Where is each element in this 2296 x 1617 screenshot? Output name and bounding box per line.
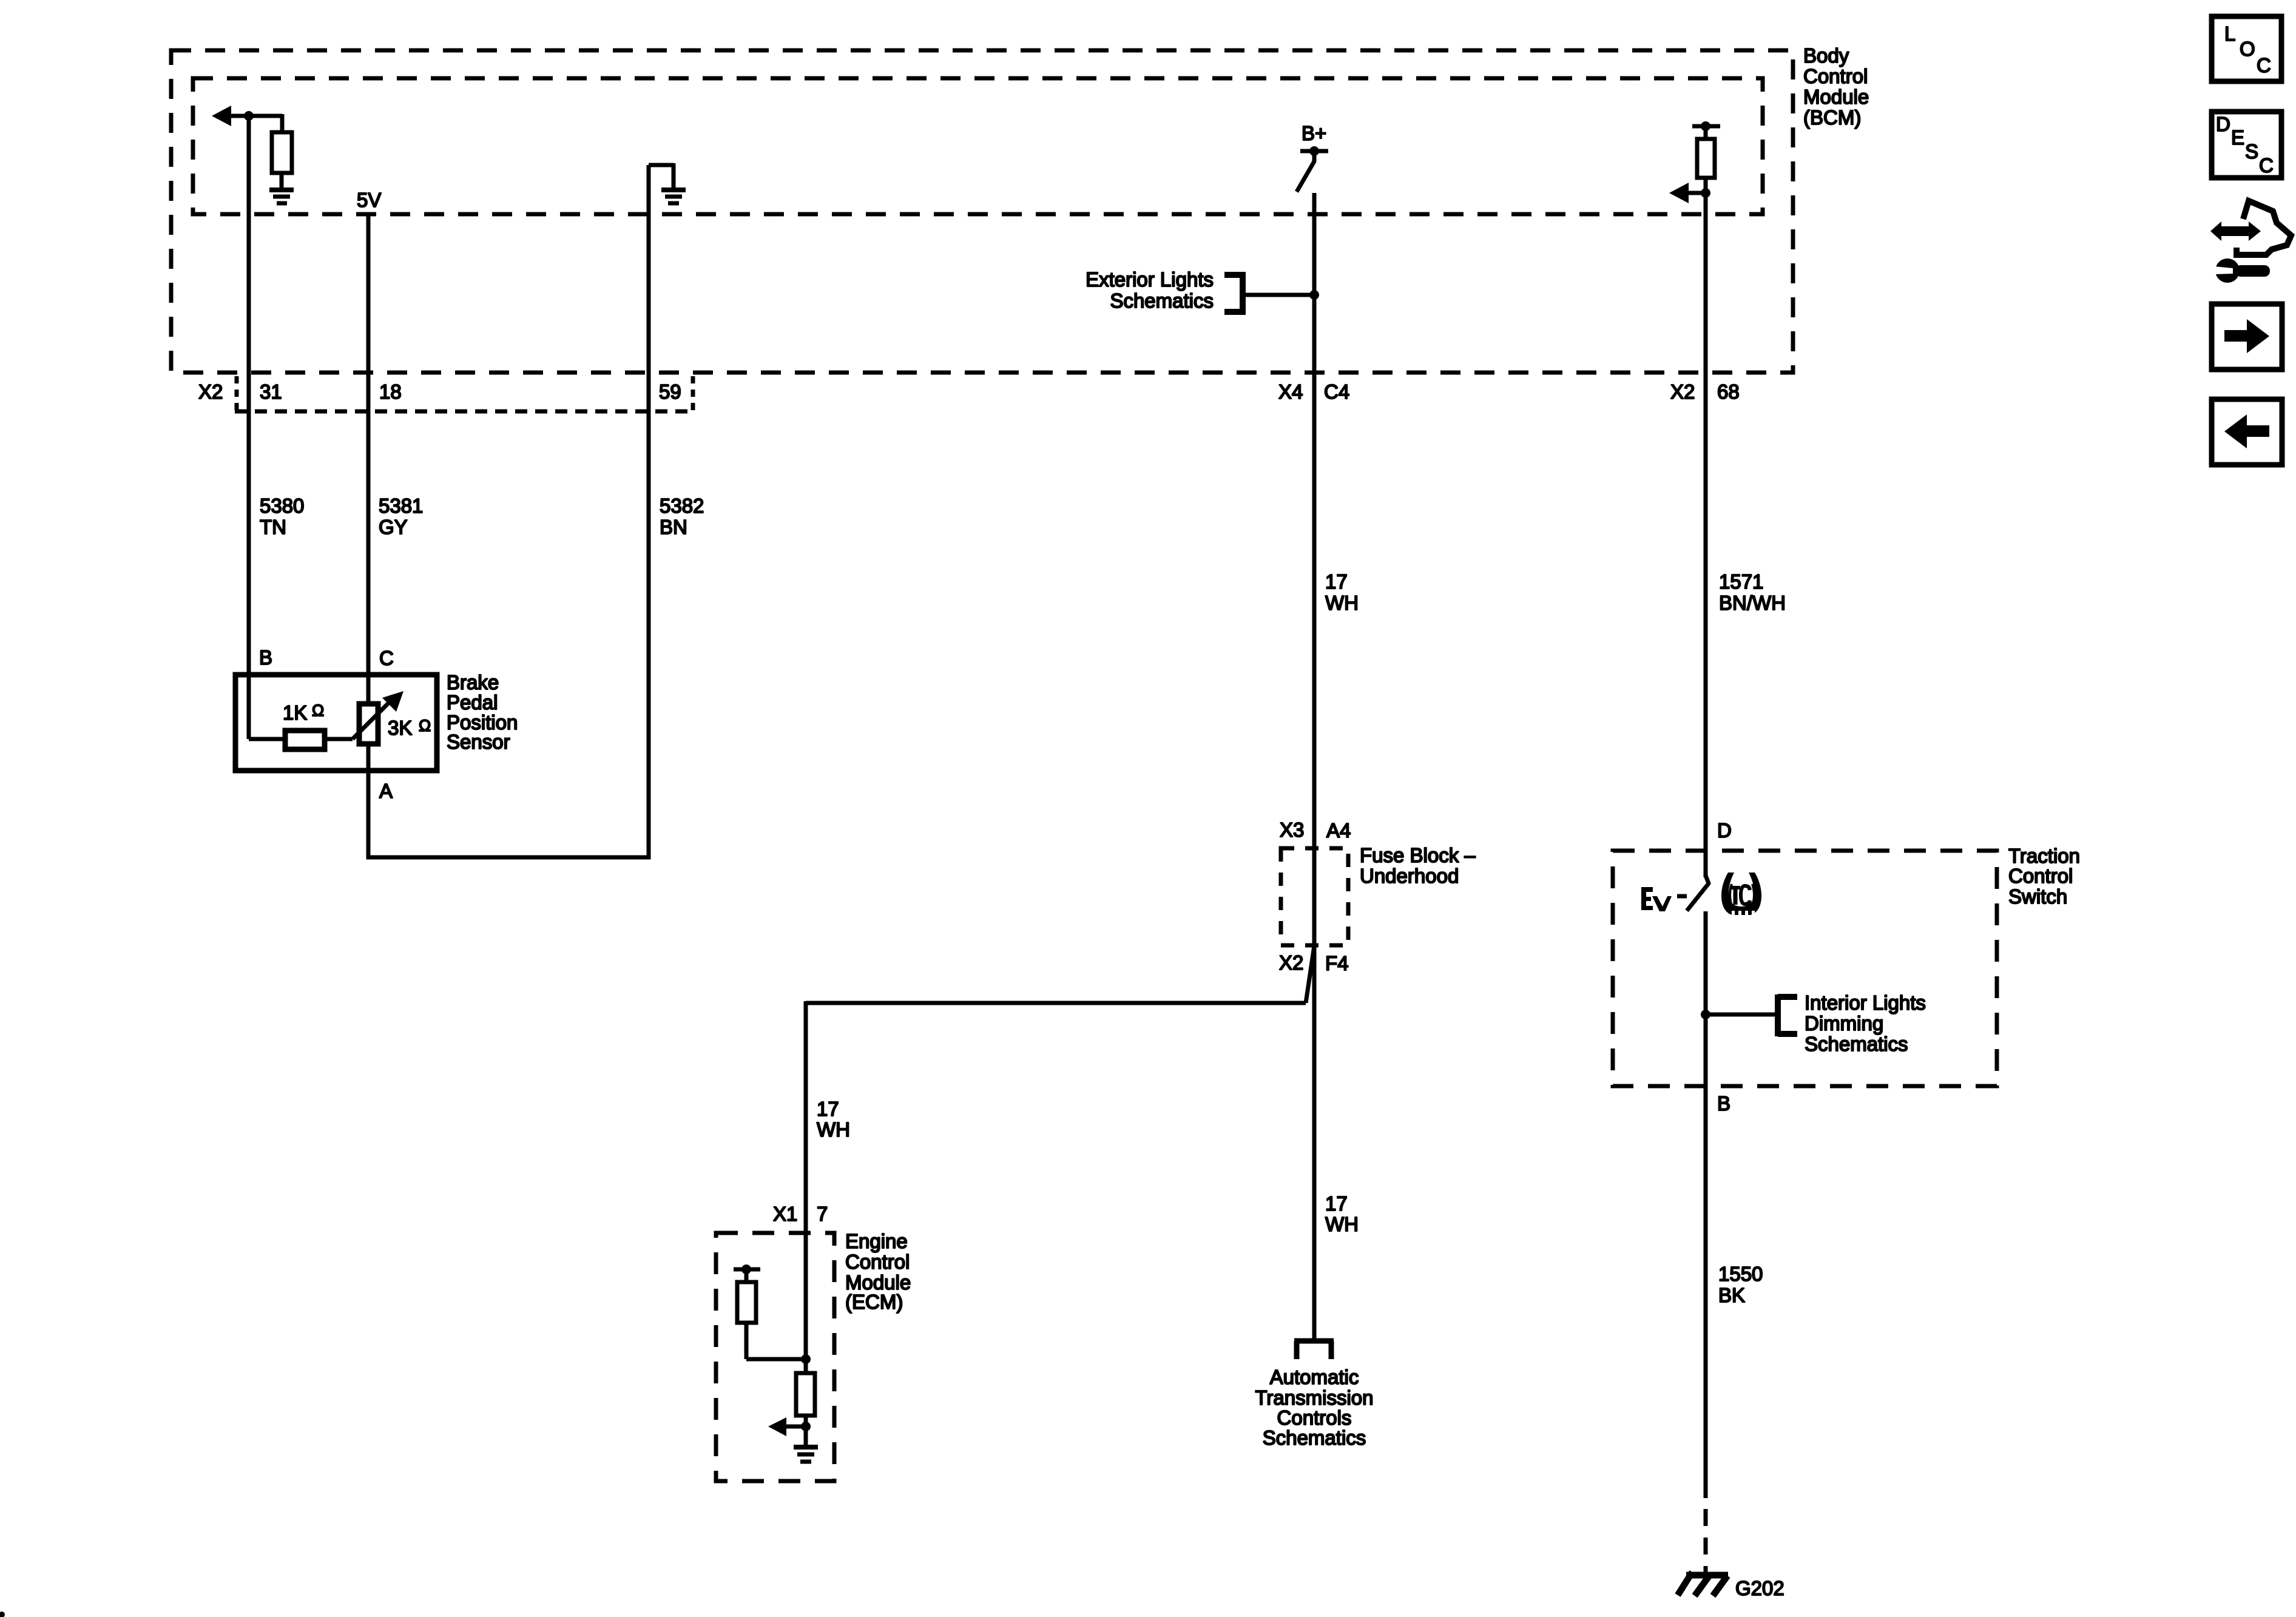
- svg-text:B: B: [1717, 1092, 1730, 1115]
- svg-text:31: 31: [260, 380, 282, 403]
- resistor (ECM pull-up): [737, 1282, 756, 1323]
- Fuse Block - Underhood box (dashed): [1281, 848, 1348, 945]
- signal arrow on node 68: [1669, 183, 1706, 203]
- wire ECM pull-up to node: [746, 1323, 806, 1359]
- svg-text:WH: WH: [817, 1118, 850, 1141]
- svg-text:Ω: Ω: [312, 701, 324, 720]
- svg-text:BN: BN: [660, 516, 687, 538]
- svg-text:Control: Control: [1803, 65, 1868, 87]
- wire label 1571 BN/WH: [1719, 570, 1786, 614]
- svg-text:3K: 3K: [388, 717, 412, 739]
- junction node 31: [244, 111, 254, 121]
- BCM outer module box (dashed): [171, 50, 1793, 373]
- label: Brake Pedal Position Sensor: [447, 671, 518, 753]
- svg-text:Schematics: Schematics: [1110, 289, 1214, 312]
- B+ feed bar and node: [1300, 146, 1328, 156]
- bracket to Automatic Transmission Controls Schematics: [1294, 1341, 1334, 1359]
- svg-text:Sensor: Sensor: [447, 731, 510, 753]
- label: Engine Control Module (ECM): [845, 1230, 911, 1313]
- wire label 1550 BK: [1718, 1263, 1763, 1306]
- label: Automatic Transmission Controls Schematics: [1255, 1366, 1374, 1449]
- svg-text:F4: F4: [1325, 952, 1349, 974]
- svg-text:A4: A4: [1326, 819, 1351, 842]
- svg-text:5382: 5382: [660, 495, 704, 517]
- label: Interior Lights Dimming Schematics: [1805, 991, 1926, 1055]
- wire 5382 BN (pin 59 to sensor pin A): [647, 165, 651, 859]
- svg-text:Transmission: Transmission: [1255, 1386, 1374, 1409]
- svg-text:WH: WH: [1325, 592, 1359, 614]
- Engine Control Module box (dashed): [716, 1233, 834, 1481]
- svg-text:TN: TN: [260, 516, 286, 538]
- Fuse Block pin labels X3 A4: [1280, 819, 1351, 842]
- wire label 5380 TN: [260, 495, 304, 538]
- TC tire indicator symbol: [1721, 873, 1761, 917]
- label 3K ohm: [388, 717, 431, 739]
- svg-text:Underhood: Underhood: [1360, 865, 1459, 887]
- label: Body Control Module (BCM): [1803, 44, 1869, 129]
- wire resistor to ground node: [804, 1416, 808, 1447]
- svg-text:X2: X2: [1670, 380, 1695, 403]
- svg-text:5V: 5V: [357, 189, 381, 211]
- BCM X2 connector strip (fine dashed): [235, 376, 693, 411]
- wire label 17 WH (ECM branch): [817, 1098, 850, 1141]
- wire label 5382 BN: [660, 495, 704, 538]
- Fuse Block pin labels X2 F4: [1279, 951, 1349, 974]
- svg-text:D: D: [1717, 819, 1732, 842]
- wire resistor to ground: [280, 173, 284, 189]
- branch wire 17 WH to ECM: [806, 946, 1314, 1377]
- svg-text:Dimming: Dimming: [1805, 1012, 1883, 1035]
- svg-text:Interior Lights: Interior Lights: [1805, 991, 1926, 1014]
- svg-text:Body: Body: [1803, 44, 1849, 67]
- wire label 5381 GY: [379, 495, 423, 538]
- sensor box: Brake Pedal Position Sensor: [235, 675, 437, 771]
- svg-text:5381: 5381: [379, 495, 423, 517]
- junction node ECM input: [801, 1354, 811, 1364]
- svg-text:E: E: [2231, 126, 2244, 149]
- ground G202 (chassis): [1678, 1572, 1728, 1596]
- ground (BCM internal left): [269, 190, 294, 203]
- svg-text:17: 17: [1325, 1192, 1348, 1215]
- page corner mark: [0, 1612, 5, 1617]
- svg-text:Traction: Traction: [2008, 845, 2080, 867]
- svg-text:GY: GY: [379, 516, 408, 538]
- svg-text:Fuse Block –: Fuse Block –: [1360, 844, 1476, 866]
- svg-text:68: 68: [1717, 380, 1740, 403]
- svg-text:L: L: [2224, 22, 2235, 45]
- svg-text:Brake: Brake: [447, 671, 499, 694]
- svg-text:G202: G202: [1735, 1577, 1784, 1599]
- svg-text:17: 17: [817, 1098, 839, 1120]
- resistor (BCM internal, on 68): [1692, 121, 1720, 193]
- signal arrow (ECM sense): [768, 1417, 806, 1436]
- prev-page button (left arrow): [2212, 399, 2282, 465]
- svg-text:C: C: [2259, 154, 2274, 177]
- svg-text:Control: Control: [2008, 865, 2073, 887]
- svg-text:17: 17: [1325, 570, 1348, 593]
- LOC button: [2212, 16, 2281, 81]
- wire to interior lights bracket: [1706, 1013, 1775, 1017]
- svg-text:(BCM): (BCM): [1803, 106, 1861, 129]
- svg-text:Engine: Engine: [845, 1230, 908, 1252]
- ground (BCM internal right, on 59): [649, 163, 686, 203]
- svg-text:Schematics: Schematics: [1805, 1033, 1908, 1055]
- TCS indicator E with down arrow: [1641, 887, 1687, 911]
- TCS switch blade: [1687, 876, 1709, 911]
- wire TCS switch to B: [1704, 911, 1708, 1086]
- junction node interior lights tap: [1701, 1010, 1710, 1019]
- svg-text:(ECM): (ECM): [845, 1291, 903, 1313]
- wire 1550 BK dashed continuation: [1704, 1509, 1708, 1576]
- svg-text:Switch: Switch: [2008, 885, 2067, 908]
- signal arrow on node 31 inside BCM: [212, 106, 282, 132]
- resistor (ECM lower): [796, 1373, 815, 1416]
- junction node exterior lights tap: [1309, 290, 1319, 300]
- Traction Control Switch box (dashed): [1613, 851, 1997, 1086]
- wire 5381 GY (5V, pin 18 to sensor pin C): [366, 214, 371, 705]
- label: Fuse Block - Underhood: [1360, 844, 1476, 887]
- svg-text:A: A: [379, 780, 393, 802]
- svg-text:Exterior Lights: Exterior Lights: [1086, 268, 1214, 291]
- wire to exterior lights tap: [1243, 293, 1314, 297]
- wire label 17 WH (upper): [1325, 570, 1359, 614]
- label Exterior Lights Schematics: [1086, 268, 1214, 312]
- svg-text:Schematics: Schematics: [1263, 1426, 1366, 1449]
- svg-text:S: S: [2245, 140, 2258, 163]
- svg-text:X2: X2: [198, 380, 223, 403]
- switch blade (BCM B+ output): [1297, 152, 1314, 192]
- svg-text:Controls: Controls: [1277, 1406, 1352, 1429]
- svg-text:BN/WH: BN/WH: [1719, 592, 1786, 614]
- resistor (BCM internal, on 5V ref 31): [272, 132, 292, 173]
- svg-text:1550: 1550: [1718, 1263, 1763, 1285]
- svg-text:5380: 5380: [260, 495, 304, 517]
- svg-text:C: C: [379, 647, 394, 669]
- svg-text:C4: C4: [1324, 380, 1349, 403]
- svg-text:1K: 1K: [283, 701, 307, 724]
- svg-text:59: 59: [659, 380, 681, 403]
- wiper arrow of potentiometer: [353, 691, 403, 739]
- bracket to Exterior Lights Schematics: [1224, 272, 1243, 315]
- label: Traction Control Switch: [2008, 845, 2080, 908]
- wire 5380 TN (pin 31 to sensor pin B): [247, 116, 251, 739]
- wire 1550 BK: [1704, 1086, 1708, 1498]
- label 1K ohm: [283, 701, 324, 724]
- junction node ECM ground: [801, 1422, 811, 1431]
- svg-text:1571: 1571: [1719, 570, 1763, 593]
- svg-text:BK: BK: [1718, 1284, 1745, 1306]
- DESC button: [2212, 112, 2281, 178]
- svg-text:Automatic: Automatic: [1270, 1366, 1359, 1388]
- BCM inner box (dashed): [193, 78, 1763, 214]
- bracket to Interior Lights Dimming Schematics: [1778, 994, 1797, 1036]
- svg-text:X4: X4: [1278, 380, 1303, 403]
- svg-text:WH: WH: [1325, 1213, 1359, 1235]
- svg-text:B: B: [259, 646, 272, 669]
- connector-view icon (arrow, shell, wrench): [2210, 201, 2291, 283]
- potentiometer 3K (sensor internal): [359, 704, 378, 744]
- svg-text:O: O: [2240, 38, 2255, 60]
- ground (ECM internal): [794, 1447, 818, 1462]
- svg-text:Control: Control: [845, 1251, 910, 1273]
- ECM internal pull-up node bar: [734, 1264, 760, 1283]
- svg-text:Module: Module: [1803, 86, 1869, 108]
- resistor 1K (sensor internal): [249, 731, 353, 749]
- svg-text:18: 18: [379, 380, 402, 403]
- svg-text:D: D: [2216, 113, 2230, 135]
- svg-text:B+: B+: [1302, 122, 1326, 144]
- svg-text:7: 7: [817, 1203, 828, 1225]
- wire 1571 BN/WH (pin 68 to TCS pin D): [1704, 193, 1708, 877]
- svg-text:X2: X2: [1279, 951, 1303, 974]
- svg-text:X3: X3: [1280, 819, 1304, 841]
- svg-text:X1: X1: [773, 1203, 797, 1225]
- svg-text:Ω: Ω: [419, 717, 431, 735]
- svg-text:C: C: [2257, 54, 2271, 76]
- next-page button (right arrow): [2212, 304, 2282, 370]
- svg-text:Pedal: Pedal: [447, 691, 498, 714]
- wire label 17 WH (lower trunk): [1325, 1192, 1359, 1235]
- ECM pin labels X1 7: [773, 1203, 828, 1225]
- wire 17 WH (B+ trunk): [1312, 193, 1317, 1340]
- wire sensor A drop: [366, 744, 371, 859]
- wire sensor A bottom run: [366, 856, 650, 860]
- junction node 68: [1701, 188, 1710, 198]
